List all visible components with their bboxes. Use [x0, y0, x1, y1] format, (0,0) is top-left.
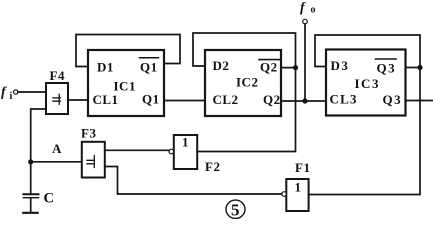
svg-text:f: f [1, 85, 7, 100]
wire F4 second input from node A branch [31, 109, 46, 194]
flip-flop IC1 [88, 50, 164, 116]
svg-text:D3: D3 [331, 58, 350, 73]
svg-text:Q1: Q1 [140, 60, 158, 75]
svg-text:5: 5 [231, 201, 240, 220]
figure number 5 circle [226, 200, 245, 218]
svg-text:1: 1 [182, 135, 189, 150]
capacitor lower lead [30, 198, 32, 212]
gate F2 input bubble [169, 149, 174, 154]
capacitor C bottom plate [23, 197, 38, 199]
overline of Q1bar [140, 57, 159, 59]
svg-text:F3: F3 [81, 126, 96, 141]
overline of Q3bar [376, 58, 397, 60]
wire node A to F3 input [31, 161, 82, 163]
svg-text:IC3: IC3 [355, 76, 380, 91]
wire Q2 to CL3 [281, 100, 326, 102]
svg-text:Q3: Q3 [377, 61, 397, 76]
svg-text:Q2: Q2 [260, 60, 278, 75]
svg-text:F1: F1 [295, 160, 310, 175]
svg-text:CL2: CL2 [213, 92, 239, 107]
wire F2 output up to Q2bar/D2 node [197, 68, 295, 152]
svg-text:C: C [44, 191, 55, 207]
gate F2 [174, 135, 197, 169]
svg-text:IC2: IC2 [236, 75, 258, 90]
svg-text:o: o [311, 5, 317, 16]
svg-text:D1: D1 [97, 60, 114, 75]
svg-text:F4: F4 [50, 68, 65, 83]
overline of Q2bar [259, 59, 281, 61]
svg-text:D2: D2 [213, 58, 230, 73]
gate F4 symbol [53, 94, 60, 104]
wire F3 output to F2 input bubble [105, 149, 169, 151]
wire feedback loop Q3bar to D3 [315, 35, 420, 68]
terminal f_i [14, 90, 18, 94]
wire F4 output to CL1 [68, 99, 88, 101]
wire F3 lower pin to F1 input bubble [105, 167, 282, 195]
wire Q1 to CL2 [164, 100, 205, 102]
node junction dot f_o on Q2 wire [302, 98, 307, 103]
svg-text:1: 1 [295, 180, 302, 195]
node junction dot F2 output at Q2bar [293, 65, 298, 70]
svg-text:F2: F2 [205, 159, 220, 174]
svg-text:CL1: CL1 [93, 92, 119, 107]
ground bar [23, 212, 37, 214]
wire F1 output up to Q3bar/D3 node [309, 68, 420, 195]
node A junction dot [28, 159, 33, 164]
wire f_o down to Q2 line [304, 24, 306, 101]
gate F3 symbol [87, 156, 94, 168]
gate F4 [46, 83, 68, 114]
svg-text:f: f [300, 1, 306, 16]
svg-text:A: A [52, 141, 62, 156]
node junction dot F1 wire at Q3bar [417, 65, 422, 70]
flip-flop IC2 [205, 50, 281, 116]
svg-text:Q3: Q3 [383, 92, 403, 107]
gate F1 input bubble [282, 192, 287, 197]
capacitor C top plate [23, 193, 38, 195]
gate F3 [82, 142, 105, 178]
gate F1 [286, 179, 308, 211]
flip-flop IC3 [326, 50, 406, 116]
wire f_i to F4 input [18, 91, 46, 93]
svg-text:Q2: Q2 [263, 92, 281, 107]
terminal f_o [303, 19, 308, 24]
svg-text:i: i [10, 91, 13, 102]
svg-text:Q1: Q1 [142, 92, 160, 107]
wire feedback loop Q1bar to D1 [76, 35, 180, 67]
svg-text:CL3: CL3 [330, 92, 358, 107]
wire Q3 to right edge [406, 100, 433, 102]
wire feedback loop Q2bar to D2 [193, 33, 296, 68]
